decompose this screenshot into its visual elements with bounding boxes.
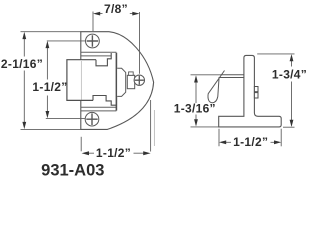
- faint plate edge behind box: [80, 61, 82, 100]
- right screw: [134, 75, 144, 85]
- side bent hook ramp: [208, 71, 225, 103]
- front view: strike mounting plate (pointed shield): [81, 32, 154, 130]
- top tab lines: [81, 52, 117, 56]
- box stepped notch bottom: [93, 96, 116, 106]
- svg-text:1-1/2”: 1-1/2”: [96, 146, 131, 160]
- dim 1-1/2 bottom front: [80, 137, 82, 152]
- top screw hole: [86, 34, 100, 48]
- wedge plug: [117, 68, 126, 96]
- svg-text:1-3/16”: 1-3/16”: [174, 102, 216, 116]
- side view: strike body profile (base + wall + top tab): [219, 55, 282, 127]
- svg-text:1-1/2”: 1-1/2”: [233, 135, 268, 149]
- dim 1-3/4 side right: [257, 53, 294, 55]
- bottom screw hole: [85, 112, 99, 126]
- strike box body (white fill covers plate edge): [67, 60, 117, 100]
- dim 2-1/16 left: [21, 31, 81, 33]
- bottom tab line: [81, 107, 117, 111]
- dim 1-3/16 side left: [191, 74, 221, 76]
- box outline: [67, 60, 96, 101]
- side screw bumps: [254, 87, 258, 92]
- dim 1-1/2 holes: [47, 40, 86, 42]
- svg-text:1-1/2”: 1-1/2”: [32, 80, 67, 94]
- svg-text:2-1/16”: 2-1/16”: [1, 57, 43, 71]
- bolt block: [127, 75, 134, 88]
- svg-text:1-3/4”: 1-3/4”: [272, 67, 307, 81]
- svg-text:7/8”: 7/8”: [104, 2, 128, 16]
- svg-text:931-A03: 931-A03: [41, 162, 104, 180]
- box stepped notch top: [96, 53, 111, 66]
- dim 1-1/2 side bottom: [218, 129, 220, 147]
- dim 7/8 top: [93, 12, 140, 74]
- side catch shelf plate: [219, 75, 244, 78]
- box right edge: [115, 53, 117, 111]
